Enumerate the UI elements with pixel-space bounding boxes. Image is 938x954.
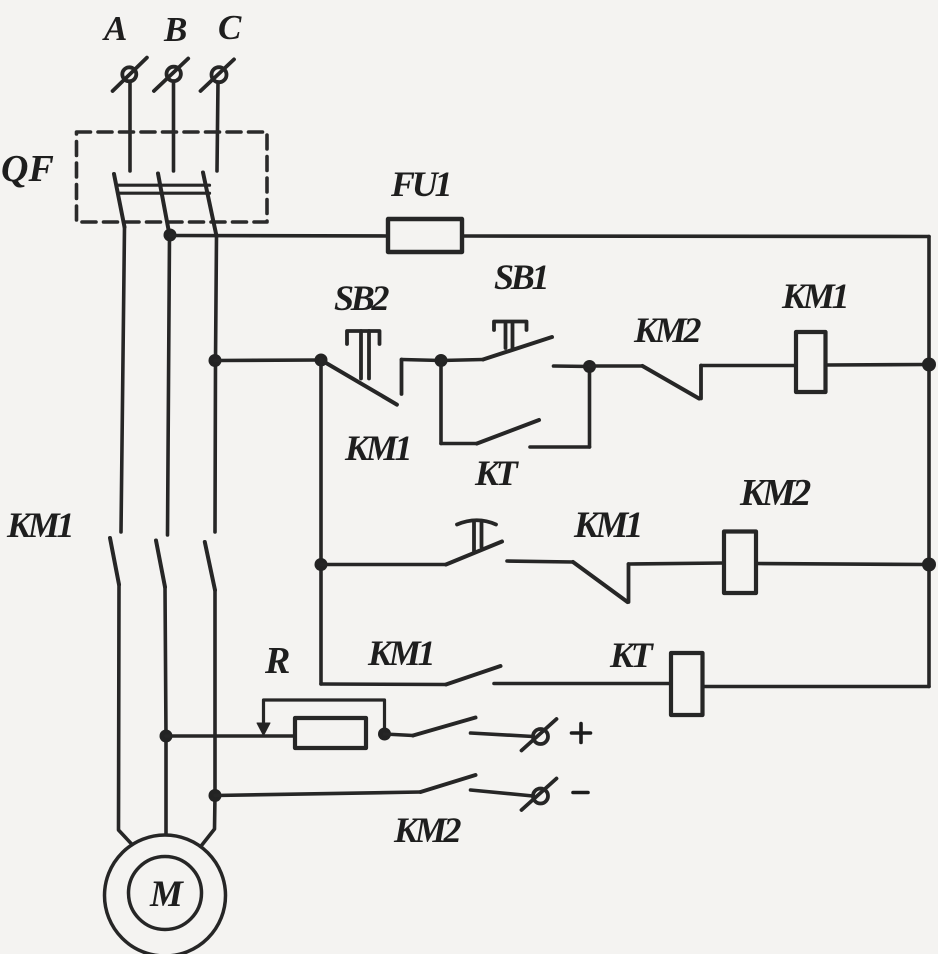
- wire top rail right: [462, 234, 929, 238]
- svg-text:SB2: SB2: [334, 278, 390, 318]
- KM1 main contact phase A: [110, 538, 119, 585]
- breaker pole phase A: [114, 174, 125, 227]
- minus sign: [573, 791, 588, 795]
- wire phase B to motor: [165, 587, 166, 836]
- svg-text:KM1: KM1: [344, 428, 410, 468]
- pushbutton SB2 (NC): [321, 331, 402, 405]
- wire phase B upper: [172, 81, 176, 171]
- resistor R: [295, 718, 366, 748]
- junction right bus row1: [922, 358, 936, 372]
- svg-text:B: B: [163, 10, 187, 49]
- wire SB2 to node2: [402, 360, 442, 361]
- terminal plus: [522, 719, 557, 751]
- svg-text:R: R: [264, 640, 290, 682]
- disconnect switch phase C: [201, 59, 235, 91]
- KM1 auxiliary contact (NO): [446, 666, 671, 685]
- wire phase C to main contact: [215, 236, 217, 532]
- svg-text:SB1: SB1: [494, 257, 547, 297]
- wire row2 lead: [321, 563, 446, 567]
- junction left bus row2: [315, 558, 328, 571]
- wire phase C upper: [217, 82, 218, 171]
- wire top rail left: [170, 234, 388, 238]
- KM2 braking contact lower (NO): [215, 775, 533, 796]
- wire braking row lead: [166, 734, 295, 738]
- svg-text:M: M: [149, 874, 184, 915]
- wire coil KM1 to right bus: [826, 363, 930, 367]
- svg-text:QF: QF: [1, 148, 54, 190]
- svg-text:C: C: [218, 8, 242, 47]
- junction after resistor: [378, 728, 391, 741]
- wire coil KM2 to right bus: [756, 564, 929, 565]
- wire phase A to main contact: [121, 227, 125, 532]
- svg-text:KM2: KM2: [393, 810, 462, 850]
- junction left bus row1: [315, 354, 328, 367]
- svg-text:KM2: KM2: [633, 310, 702, 350]
- junction right bus row2: [922, 558, 936, 572]
- wire coil KT to right bus: [703, 685, 930, 689]
- wire left bus: [319, 360, 323, 684]
- KT delayed contact: [446, 520, 573, 564]
- breaker tie bar: [118, 185, 210, 193]
- terminal minus: [522, 779, 557, 811]
- contactor coil KM2: [724, 532, 756, 594]
- svg-text:KM2: KM2: [739, 472, 811, 514]
- svg-text:A: A: [102, 9, 127, 48]
- svg-text:KT: KT: [474, 453, 520, 493]
- motor M inner circle: [129, 857, 202, 930]
- fuse FU1: [388, 219, 462, 252]
- svg-text:FU1: FU1: [390, 164, 450, 204]
- wire control rail to left bus: [215, 358, 321, 362]
- KM2 interlock contact (NC): [590, 366, 797, 399]
- motor M outer circle: [105, 835, 226, 954]
- timer coil KT: [671, 653, 703, 715]
- junction node3: [583, 360, 596, 373]
- wire right bus: [927, 237, 931, 687]
- svg-text:KM1: KM1: [781, 276, 847, 316]
- KM1 interlock contact (NC): [573, 562, 724, 602]
- wire phase B to main contact: [168, 235, 170, 535]
- breaker pole phase C: [203, 173, 217, 237]
- KM1 main contact phase B: [156, 541, 165, 588]
- disconnect switch phase A: [113, 58, 147, 91]
- junction top rail on phase B: [164, 229, 177, 242]
- pushbutton SB1 (NO): [441, 322, 590, 367]
- contactor coil KM1: [796, 332, 826, 392]
- junction control rail on phase C: [209, 354, 222, 367]
- self-holding branch contact: [441, 361, 590, 448]
- junction braking row on phase B: [160, 730, 173, 743]
- breaker pole phase B: [158, 174, 170, 236]
- KM2 braking contact upper (NO): [385, 718, 534, 737]
- svg-text:KT: KT: [609, 635, 655, 675]
- svg-text:KM1: KM1: [6, 505, 72, 545]
- plus sign: [572, 724, 591, 743]
- svg-text:KM1: KM1: [367, 633, 433, 673]
- junction node2: [435, 354, 448, 367]
- wire phase C to motor: [202, 590, 216, 846]
- wire phase A upper: [128, 82, 132, 172]
- disconnect switch phase B: [154, 59, 188, 92]
- wire row3 lead: [321, 682, 446, 686]
- wire phase A to motor: [119, 585, 134, 846]
- resistor R tap bracket: [257, 700, 385, 736]
- junction minus row on phase C: [209, 789, 222, 802]
- KM1 main contact phase C: [205, 542, 215, 590]
- svg-text:KM1: KM1: [573, 505, 640, 546]
- circuit breaker QF dashed enclosure: [77, 132, 268, 222]
